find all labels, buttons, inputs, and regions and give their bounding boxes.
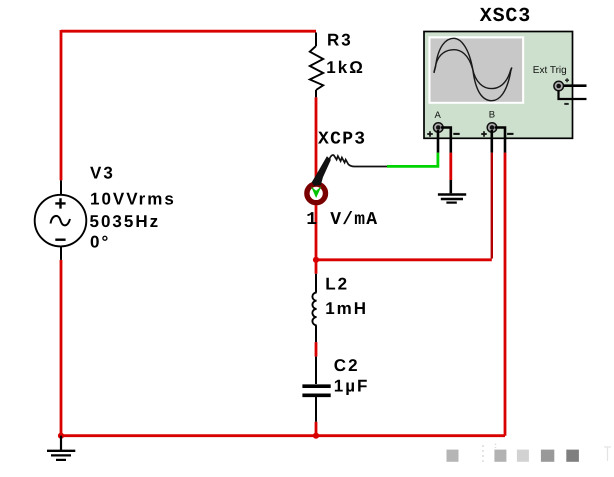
svg-text:0°: 0° <box>90 233 110 252</box>
node C junction bottom left <box>58 433 64 439</box>
terminal B <box>487 123 497 133</box>
terminal A <box>434 123 444 133</box>
ground bottom left <box>47 436 75 460</box>
wire C2 to bottom <box>315 422 318 436</box>
lead A plus <box>437 130 440 153</box>
svg-text:1µF: 1µF <box>334 376 370 395</box>
ground scope <box>438 180 466 203</box>
wire node to L2 <box>315 260 318 274</box>
wire top horizontal <box>61 30 316 33</box>
svg-text:R3: R3 <box>327 31 353 50</box>
capacitor C2 <box>302 357 330 422</box>
scope trace channel B <box>434 50 512 89</box>
svg-text:B: B <box>489 109 495 120</box>
current probe XCP3 <box>304 155 387 205</box>
wire node to B+ horizontal <box>316 258 492 261</box>
wire source bottom vertical <box>60 260 63 436</box>
watermark squares <box>447 450 579 462</box>
svg-text:V3: V3 <box>90 164 115 183</box>
wire bottom horizontal <box>61 434 505 437</box>
terminal A plus <box>427 131 433 137</box>
resistor R3 <box>310 33 323 98</box>
svg-text:1kΩ: 1kΩ <box>326 58 365 77</box>
wire green A+ <box>387 153 438 167</box>
scope trace channel A <box>434 38 512 100</box>
terminal A minus <box>453 133 459 135</box>
svg-text:1 V/mA: 1 V/mA <box>306 210 378 230</box>
wire resistor to node vertical <box>315 97 318 259</box>
terminal B plus <box>481 131 487 137</box>
svg-text:10VVrms: 10VVrms <box>90 190 176 209</box>
svg-text:A: A <box>435 110 442 121</box>
svg-text:XCP3: XCP3 <box>318 130 366 150</box>
lead A minus <box>441 128 451 153</box>
svg-text:L2: L2 <box>325 275 349 294</box>
terminal B minus <box>507 133 513 135</box>
inductor L2 <box>312 274 316 342</box>
svg-text:Ext Trig: Ext Trig <box>533 64 567 75</box>
ext trig minus <box>564 103 568 105</box>
svg-text:XSC3: XSC3 <box>480 5 531 28</box>
ext trig wire minus <box>559 91 587 100</box>
wire L2 to C2 <box>315 342 318 357</box>
lead B minus <box>495 128 505 153</box>
oscilloscope XSC3 <box>424 32 587 153</box>
svg-text:5035Hz: 5035Hz <box>90 212 161 231</box>
ac source V3 <box>35 180 87 260</box>
wire A- red segment <box>449 153 452 180</box>
svg-text:C2: C2 <box>334 356 360 375</box>
node B junction bottom <box>313 433 319 439</box>
watermark artifact dots <box>482 445 484 462</box>
wire left vertical <box>60 30 63 180</box>
terminal Ext Trig <box>554 81 564 91</box>
lead B plus <box>490 130 493 153</box>
ext trig wire plus <box>564 84 587 87</box>
wire B+ riser <box>491 153 493 259</box>
svg-text:1mH: 1mH <box>325 299 368 318</box>
node A junction <box>313 257 319 263</box>
ext trig plus <box>565 78 569 82</box>
wire B- riser <box>504 153 507 436</box>
